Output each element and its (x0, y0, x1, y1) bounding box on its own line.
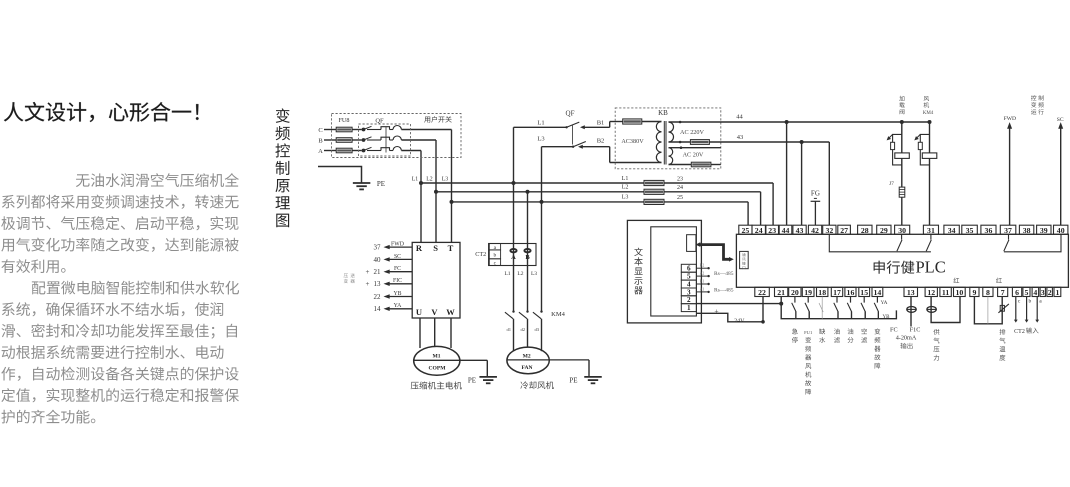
label exhaust temp (999, 329, 1005, 361)
fuse 43 (690, 140, 709, 145)
text display box (627, 220, 701, 323)
label L3 b (531, 271, 537, 277)
node C (318, 127, 322, 134)
wire L1 down (512, 183, 514, 313)
transformer core (664, 121, 666, 165)
label supply pressure (933, 329, 939, 361)
junction dots buses (419, 181, 544, 204)
comm cable (696, 242, 734, 261)
arrow SC (1058, 122, 1063, 225)
tap 20V bottom (669, 164, 721, 166)
svg-text:FC: FC (394, 266, 401, 272)
svg-text:5: 5 (687, 273, 691, 281)
wire 43 (669, 140, 830, 225)
user switch box (332, 114, 462, 158)
svg-text:14: 14 (374, 305, 382, 313)
svg-text:M1: M1 (432, 354, 440, 360)
svg-text:25: 25 (677, 195, 683, 201)
svg-text:43: 43 (737, 134, 744, 141)
svg-text:23: 23 (677, 176, 683, 182)
CT core B (524, 249, 530, 261)
label water shortage (819, 328, 825, 343)
bus L3 (452, 202, 749, 225)
label e-stop (792, 328, 798, 343)
label FC F1C (890, 326, 920, 333)
svg-text:KM4: KM4 (923, 111, 934, 116)
wire L2 down (526, 192, 528, 313)
label YB (883, 315, 891, 320)
rs485 stubs (696, 264, 709, 293)
svg-text:B2: B2 (700, 264, 705, 268)
wire display 2 to 21 (696, 302, 783, 306)
fuse 20V (691, 162, 711, 167)
svg-text:SC: SC (394, 254, 401, 260)
label W (446, 307, 455, 317)
svg-text:14: 14 (874, 288, 882, 297)
svg-text:a: a (1039, 298, 1042, 304)
relay loading valve (887, 122, 910, 187)
wire C to T (401, 130, 451, 243)
label plus 24V (714, 306, 745, 324)
svg-text:+: + (366, 268, 370, 276)
svg-text:4-20mA: 4-20mA (896, 334, 917, 341)
input contacts (792, 297, 879, 319)
label L1 (622, 176, 629, 182)
label FU1 vfd fan fault (804, 330, 813, 395)
wire display 1 24V (696, 313, 764, 323)
svg-text:3: 3 (687, 288, 691, 296)
svg-text:PE: PE (569, 377, 577, 385)
wire 21 common (781, 297, 896, 319)
fuse bus L1 (644, 180, 664, 185)
svg-text:b: b (1029, 298, 1032, 304)
CT core A (510, 249, 516, 261)
svg-text:13: 13 (374, 280, 382, 288)
svg-text:B1: B1 (597, 120, 605, 127)
label KM4 (551, 311, 565, 318)
wire W (450, 318, 452, 348)
svg-text:39: 39 (1040, 226, 1048, 235)
svg-text:c: c (1018, 298, 1021, 304)
svg-text:AC380V: AC380V (621, 138, 644, 145)
svg-text:25: 25 (742, 226, 750, 235)
svg-text:L1: L1 (504, 271, 510, 277)
svg-text:42: 42 (811, 226, 819, 235)
fuse bus L2 (644, 189, 664, 194)
svg-text:FWD: FWD (1004, 116, 1016, 122)
transformer primary coil (656, 121, 661, 162)
wire L3 down (540, 202, 542, 313)
svg-text:R: R (416, 243, 423, 253)
label AC380V (621, 138, 644, 145)
label PLC name (874, 258, 946, 277)
ground PE left (318, 167, 385, 190)
label U (416, 307, 422, 317)
svg-text:18: 18 (818, 288, 826, 297)
label AC 220V (680, 129, 704, 136)
svg-text:L2: L2 (622, 185, 629, 191)
transformer secondary 20V coil (669, 148, 673, 165)
svg-text:L1: L1 (412, 177, 419, 183)
svg-text:CT2: CT2 (1014, 329, 1025, 335)
svg-text:FU8: FU8 (338, 117, 349, 124)
ground M2 PE (569, 360, 601, 385)
svg-text:1: 1 (687, 304, 691, 312)
svg-text:13: 13 (907, 288, 915, 297)
label QF (375, 117, 384, 124)
label Rs-485 a (714, 271, 734, 277)
label red 1 (954, 278, 960, 283)
svg-text:YA: YA (881, 301, 888, 306)
svg-text:21: 21 (777, 288, 785, 297)
label L1 riser (412, 177, 419, 183)
svg-text:W: W (446, 307, 455, 317)
svg-text:L1: L1 (537, 120, 544, 127)
display comm port (687, 235, 696, 252)
svg-text:12: 12 (927, 288, 935, 297)
label CT2 (475, 251, 486, 258)
svg-text:20: 20 (791, 288, 799, 297)
label FWD (1004, 116, 1016, 122)
svg-text:YA: YA (394, 303, 403, 309)
svg-text:4: 4 (687, 281, 691, 289)
label control vfd run (1031, 95, 1044, 114)
thermistor (998, 304, 1009, 313)
label SC (1057, 117, 1064, 123)
svg-text:A1: A1 (700, 287, 705, 291)
svg-text:AC 220V: AC 220V (680, 129, 704, 136)
svg-text:L3: L3 (537, 135, 544, 142)
ground FG (811, 198, 821, 225)
svg-text:40: 40 (374, 256, 382, 264)
inverter box (412, 242, 460, 318)
svg-text:d1: d1 (507, 327, 512, 332)
ground M1 PE (468, 360, 497, 384)
label compressor motor (411, 381, 462, 389)
svg-text:23: 23 (768, 226, 776, 235)
svg-text:9: 9 (972, 288, 976, 297)
svg-text:B1: B1 (700, 280, 705, 284)
label 44 (736, 114, 743, 121)
svg-text:PE: PE (377, 180, 385, 188)
svg-text:FWD: FWD (391, 242, 404, 248)
headline text (4, 102, 199, 122)
body paragraph (1, 173, 239, 423)
svg-text:KM4: KM4 (551, 311, 565, 318)
label 24 (677, 185, 683, 191)
svg-text:34: 34 (948, 226, 956, 235)
label T (448, 243, 454, 253)
breaker QF pole B (362, 136, 402, 142)
label J7 (889, 181, 894, 187)
label red 2 (996, 278, 1002, 283)
label AC 20V (683, 151, 704, 158)
label YA (881, 301, 888, 306)
transformer KB box (615, 108, 721, 169)
svg-text:5: 5 (1024, 288, 1028, 297)
display terminals (681, 264, 696, 312)
svg-text:L3: L3 (531, 271, 537, 277)
svg-text:17: 17 (833, 288, 841, 297)
contactor KM4 (505, 312, 542, 351)
svg-text:M2: M2 (523, 353, 531, 359)
svg-text:6: 6 (1015, 288, 1019, 297)
svg-text:AC 20V: AC 20V (683, 151, 704, 158)
label oil separator (848, 328, 854, 342)
analog out 13 (907, 297, 916, 327)
label text display (634, 248, 642, 295)
svg-text:2: 2 (687, 296, 691, 304)
wire U (419, 318, 421, 348)
label L1 b (504, 271, 510, 277)
bus L1 (421, 183, 773, 225)
svg-text:30: 30 (898, 226, 906, 235)
arrow FWD (1007, 122, 1012, 225)
PLC internal contact 30-32 (829, 234, 931, 252)
tiny transducer note (344, 273, 355, 283)
wire primary (642, 121, 662, 123)
svg-text:28: 28 (861, 226, 869, 235)
PLC bottom terminals (755, 287, 1061, 297)
node A (318, 148, 323, 155)
tap 20V top (669, 146, 721, 149)
svg-text:YB: YB (883, 315, 891, 320)
svg-text:CT2: CT2 (475, 251, 486, 258)
wire B to S (401, 140, 436, 242)
label loading valve (899, 96, 904, 114)
fuse FU8 phase A (324, 148, 362, 153)
label FU8 (338, 117, 349, 124)
svg-text:Rs—485: Rs—485 (714, 271, 734, 277)
breaker QF pole C (362, 126, 402, 132)
label d1 (507, 327, 512, 332)
svg-text:19: 19 (804, 288, 812, 297)
svg-text:FG: FG (811, 190, 820, 198)
svg-text:44: 44 (782, 226, 790, 235)
svg-text:S: S (433, 243, 438, 253)
svg-text:40: 40 (1057, 226, 1065, 235)
motor M1 (414, 346, 488, 375)
svg-text:B2: B2 (597, 138, 605, 145)
label 25 (677, 195, 683, 201)
label oil filter (834, 328, 840, 343)
wire 8 thin (987, 297, 989, 324)
svg-text:4: 4 (1033, 288, 1037, 297)
breaker QF link (385, 127, 387, 153)
label 4-20mA (896, 334, 917, 341)
breaker QF box (359, 124, 411, 156)
PLC U1 box (736, 234, 1068, 287)
svg-text:44: 44 (736, 114, 743, 121)
svg-text:SC: SC (1057, 117, 1064, 123)
svg-text:27: 27 (840, 226, 848, 235)
svg-text:21: 21 (374, 268, 382, 276)
wire 22 down (762, 297, 764, 322)
svg-text:FIC: FIC (393, 278, 402, 284)
svg-text:7: 7 (1001, 288, 1005, 297)
label output (900, 343, 912, 349)
svg-text:T: T (448, 243, 454, 253)
svg-text:L2: L2 (517, 271, 523, 277)
svg-text:FAN: FAN (521, 365, 532, 371)
wire V (434, 318, 436, 347)
switch QF pole L3 (542, 142, 662, 202)
switch QF pole L1 (514, 122, 623, 184)
label cooling fan (520, 381, 554, 389)
PLC comm port (740, 251, 749, 269)
svg-text:+: + (366, 280, 370, 288)
svg-text:8: 8 (986, 288, 990, 297)
label QF2 (566, 110, 575, 118)
svg-text:QF: QF (566, 110, 575, 118)
label L3 (622, 195, 629, 201)
node B (318, 138, 323, 145)
PLC internal contact 37-40 (1004, 234, 1061, 252)
label d2 (521, 327, 526, 332)
svg-text:36: 36 (985, 226, 993, 235)
fuse FU8 phase B (324, 138, 362, 143)
svg-text:L3: L3 (442, 177, 449, 183)
switch QF link (571, 125, 573, 145)
fuse primary (623, 119, 642, 124)
resistor J7 (899, 187, 905, 225)
label KB (658, 109, 668, 117)
svg-text:PE: PE (468, 377, 476, 385)
svg-text:FU1: FU1 (804, 330, 813, 335)
text display inner box (651, 227, 697, 316)
svg-text:22: 22 (374, 293, 382, 301)
svg-text:J7: J7 (889, 181, 894, 187)
svg-text:1: 1 (1055, 288, 1059, 297)
svg-text:35: 35 (966, 226, 974, 235)
fuse FU8 phase C (324, 127, 362, 132)
svg-text:22: 22 (758, 288, 766, 297)
fuse bus L3 (644, 199, 664, 204)
label CT2 input (1014, 327, 1038, 334)
label fan KM4 vertical (923, 96, 934, 116)
svg-text:10: 10 (955, 288, 963, 297)
svg-text:L2: L2 (426, 177, 433, 183)
svg-text:A2: A2 (700, 272, 705, 276)
label vfd fault (874, 328, 880, 368)
CT2 box (489, 244, 536, 266)
temp sensor 9-7 (974, 297, 1002, 324)
wire 44 (669, 120, 932, 225)
svg-text:L1: L1 (622, 176, 629, 182)
svg-text:24: 24 (677, 185, 683, 191)
label L2 (622, 185, 629, 191)
svg-text:YB: YB (393, 291, 401, 297)
svg-text:15: 15 (860, 288, 868, 297)
svg-text:11: 11 (942, 288, 949, 297)
CT2 input wires (1014, 297, 1042, 323)
svg-text:24: 24 (755, 226, 763, 235)
label L3 riser (442, 177, 449, 183)
svg-text:16: 16 (847, 288, 855, 297)
wire A to R (401, 151, 421, 243)
label S (433, 243, 438, 253)
svg-text:V: V (431, 307, 438, 317)
PLC internal contact 31 (926, 234, 931, 251)
label Rs-485 b (714, 288, 734, 294)
label 43 (737, 134, 744, 141)
label L1 switch (537, 120, 544, 127)
label L2 riser (426, 177, 433, 183)
label user switch (424, 116, 451, 123)
bus L2 (436, 192, 761, 226)
svg-text:COPM: COPM (428, 365, 446, 371)
svg-text:d2: d2 (521, 327, 526, 332)
svg-text:B: B (318, 138, 323, 145)
svg-text:U: U (416, 307, 422, 317)
svg-text:31: 31 (927, 226, 935, 235)
svg-text:38: 38 (1023, 226, 1031, 235)
motor M2 (507, 347, 589, 374)
PLC top terminals (739, 225, 1068, 235)
label L2 b (517, 271, 523, 277)
svg-text:d3: d3 (535, 327, 540, 332)
label B2 (597, 138, 605, 145)
svg-text:32: 32 (825, 226, 833, 235)
breaker QF pole A (362, 147, 402, 153)
vertical title (275, 108, 290, 227)
label B1 (597, 120, 605, 127)
svg-text:FC: FC (890, 326, 898, 333)
label L3 switch (537, 135, 544, 142)
svg-text:3: 3 (1041, 288, 1045, 297)
svg-text:C: C (318, 127, 322, 134)
svg-text:2: 2 (1048, 288, 1052, 297)
svg-text:37: 37 (374, 244, 382, 252)
analog out 12-10 (927, 297, 960, 323)
CT2 cells (489, 244, 500, 267)
inverter control terminals (366, 242, 413, 314)
svg-text:A: A (318, 148, 323, 155)
relay fan KM4 (914, 122, 937, 225)
label 23 (677, 176, 683, 182)
svg-text:37: 37 (1004, 226, 1012, 235)
svg-text:PLC: PLC (916, 258, 946, 277)
svg-text:43: 43 (796, 226, 804, 235)
svg-text:29: 29 (880, 226, 888, 235)
svg-text:b: b (494, 253, 497, 259)
label d3 (535, 327, 540, 332)
svg-text:6: 6 (687, 265, 691, 273)
transformer secondary 220V coil (669, 122, 674, 142)
label air filter (861, 328, 867, 343)
svg-text:L3: L3 (622, 195, 629, 201)
svg-text:Rs—485: Rs—485 (714, 288, 734, 294)
label R (416, 243, 423, 253)
label V (431, 307, 438, 317)
svg-text:F1C: F1C (910, 326, 921, 333)
svg-text:KB: KB (658, 109, 668, 117)
label FG (811, 190, 820, 198)
svg-text:QF: QF (375, 117, 384, 124)
